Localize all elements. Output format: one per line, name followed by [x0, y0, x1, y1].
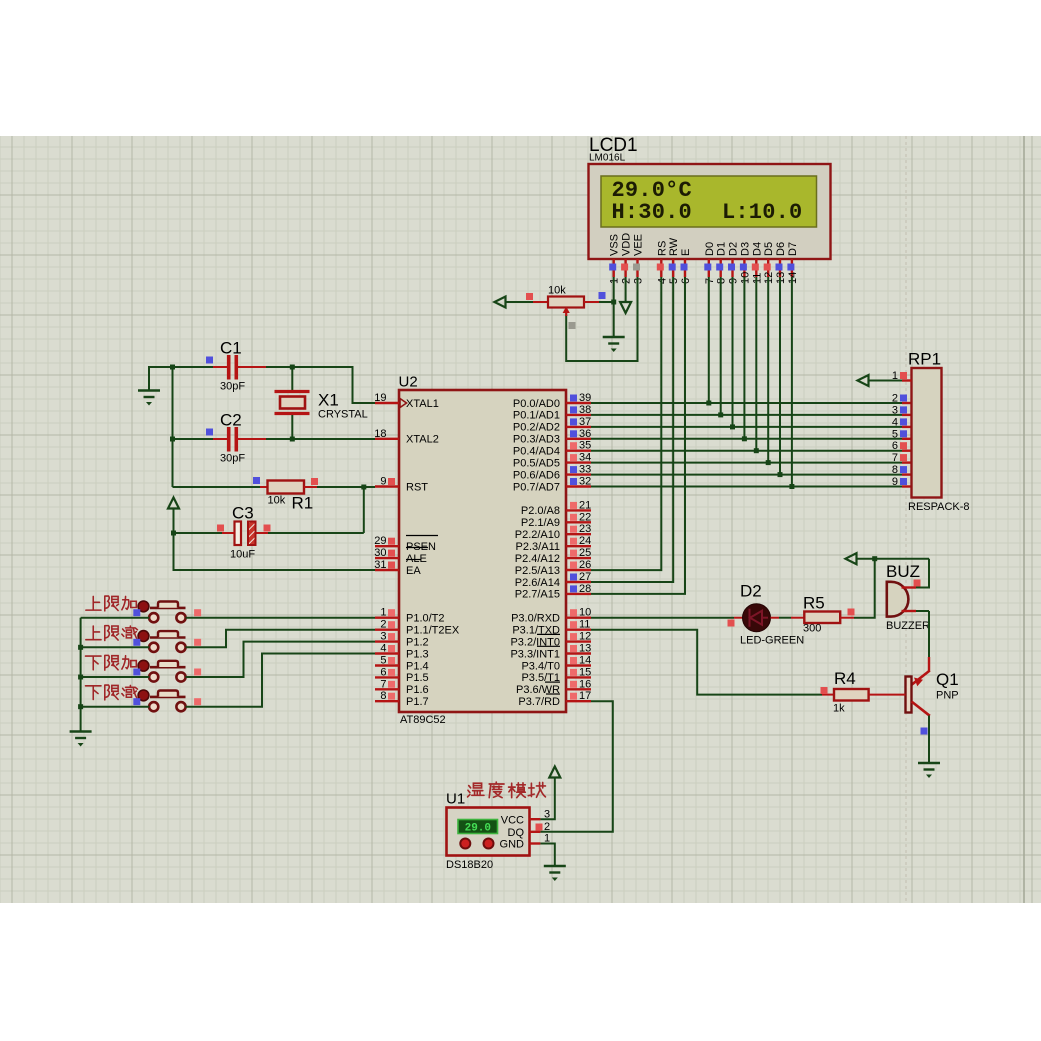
svg-text:P2.2/A10: P2.2/A10: [515, 529, 560, 541]
svg-text:5: 5: [892, 428, 898, 440]
svg-text:35: 35: [579, 440, 591, 452]
wire LCD D3 to P0.3 bus: [743, 277, 745, 439]
svg-text:4: 4: [380, 643, 386, 655]
svg-text:D0: D0: [704, 242, 716, 256]
svg-text:C1: C1: [220, 339, 242, 358]
ground (LCD VSS): [603, 337, 625, 344]
wire button column: [80, 618, 82, 732]
svg-text:30pF: 30pF: [220, 381, 245, 393]
svg-text:6: 6: [892, 440, 898, 452]
power terminal VDD (down arrow): [620, 302, 631, 313]
junction button column: [78, 645, 83, 650]
svg-text:D1: D1: [716, 242, 728, 256]
push button 2: [149, 643, 158, 652]
svg-text:38: 38: [579, 404, 591, 416]
button 2 state squares: [133, 639, 140, 646]
svg-text:VSS: VSS: [609, 234, 621, 256]
wire LCD D2 to P0.2 bus: [732, 277, 734, 427]
svg-text:P2.7/A15: P2.7/A15: [515, 589, 560, 601]
svg-text:P0.6/AD6: P0.6/AD6: [513, 469, 560, 481]
microcontroller U2 AT89C52 body: [399, 390, 566, 712]
button 1 state squares: [133, 609, 140, 616]
svg-text:VEE: VEE: [633, 234, 645, 256]
junction D1/P0.1: [718, 412, 723, 417]
svg-text:14: 14: [579, 655, 591, 667]
svg-text:7: 7: [380, 678, 386, 690]
svg-text:P0.1/AD1: P0.1/AD1: [513, 410, 560, 422]
transistor Q1 PNP: [928, 657, 930, 671]
junction C1/X1 top: [290, 365, 295, 370]
svg-text:P1.0/T2: P1.0/T2: [406, 613, 445, 625]
junction D5/P0.5: [766, 460, 771, 465]
button 4 state squares: [133, 698, 140, 705]
wire C3 left: [174, 532, 223, 534]
svg-text:E: E: [680, 249, 692, 256]
svg-text:GND: GND: [500, 839, 525, 851]
svg-text:P3.0/RXD: P3.0/RXD: [511, 613, 560, 625]
svg-text:300: 300: [803, 623, 821, 635]
svg-text:10k: 10k: [268, 495, 286, 507]
svg-text:2: 2: [380, 619, 386, 631]
power terminal (left arrow, rail): [846, 553, 857, 564]
svg-text:25: 25: [579, 547, 591, 559]
wire P3.1 to R4: [591, 630, 822, 695]
svg-text:EA: EA: [406, 565, 421, 577]
svg-text:PNP: PNP: [936, 690, 959, 702]
svg-text:6: 6: [380, 666, 386, 678]
svg-text:12: 12: [579, 631, 591, 643]
svg-text:P0.0/AD0: P0.0/AD0: [513, 398, 560, 410]
wire R1 left: [173, 486, 261, 488]
C1 state square: [206, 357, 213, 364]
RP1 pin 2 stub: [902, 402, 912, 404]
push button 1: [149, 613, 158, 622]
wire rail to buzzer top: [916, 559, 929, 588]
ground (Q1 collector): [918, 763, 940, 770]
svg-text:P3.4/T0: P3.4/T0: [521, 660, 560, 672]
ground (U1): [544, 866, 566, 873]
svg-text:29.0: 29.0: [465, 823, 491, 835]
svg-text:P0.4/AD4: P0.4/AD4: [513, 446, 560, 458]
svg-text:XTAL1: XTAL1: [406, 398, 439, 410]
wire VSS pin1 to ground: [613, 277, 615, 337]
svg-text:DQ: DQ: [508, 827, 525, 839]
LED D2 (LED-GREEN): [734, 617, 743, 619]
svg-text:P0.2/AD2: P0.2/AD2: [513, 422, 560, 434]
svg-text:10: 10: [579, 607, 591, 619]
RP1 pin1 stub: [902, 379, 912, 381]
svg-text:D6: D6: [775, 242, 787, 256]
wire LCD D5 to P0.5 bus: [767, 277, 769, 463]
wire P0.1 bus row: [591, 414, 902, 416]
wire P0.7 bus row: [591, 486, 902, 488]
ground (buttons): [70, 732, 92, 739]
svg-text:RP1: RP1: [908, 350, 941, 369]
label button 3 chinese: [85, 656, 101, 670]
buzzer BUZ: [887, 582, 909, 617]
svg-text:21: 21: [579, 499, 591, 511]
wire button3 row: [81, 676, 150, 678]
junction D4/P0.4: [754, 448, 759, 453]
junction RST/C3: [361, 485, 366, 490]
wire C2 row left: [173, 438, 214, 440]
svg-text:P1.2: P1.2: [406, 636, 429, 648]
power terminal (left arrow, pot): [495, 297, 506, 308]
wire button2 row: [81, 646, 150, 648]
svg-text:R1: R1: [292, 494, 314, 513]
wire pot left: [506, 301, 534, 303]
crystal X1: [291, 367, 293, 390]
D2 state square: [728, 620, 735, 627]
RP1 pin 6 stub: [902, 450, 912, 452]
svg-text:15: 15: [579, 666, 591, 678]
wire VEE pin3 to pot wiper: [566, 277, 637, 361]
label button 1 chinese: [86, 596, 101, 610]
svg-text:P2.1/A9: P2.1/A9: [521, 517, 560, 529]
R5 state square: [848, 609, 855, 616]
svg-text:R5: R5: [803, 594, 825, 613]
svg-text:VDD: VDD: [621, 233, 633, 256]
svg-text:C3: C3: [232, 504, 254, 523]
RP1 pin 5 stub: [902, 438, 912, 440]
svg-text:C2: C2: [220, 411, 242, 430]
svg-text:D3: D3: [739, 242, 751, 256]
R1 state squares: [253, 477, 260, 484]
svg-text:P2.3/A11: P2.3/A11: [516, 541, 560, 553]
svg-text:31: 31: [374, 559, 386, 571]
svg-text:19: 19: [374, 392, 386, 404]
svg-text:8: 8: [380, 690, 386, 702]
power terminal VCC (up arrow, U1): [549, 767, 560, 778]
svg-text:RST: RST: [406, 481, 428, 493]
wire P3.0 to LED: [591, 617, 734, 619]
wire ground to C1: [149, 367, 213, 391]
LCD pin state squares: [609, 264, 616, 271]
wire buzzer bottom to Q1 emitter: [916, 610, 929, 612]
capacitor C3 (polar): [256, 532, 269, 534]
svg-text:P0.5/AD5: P0.5/AD5: [513, 457, 560, 469]
pot wiper arrow: [565, 310, 567, 317]
U2 left pin stubs: [375, 402, 399, 404]
wire LCD D6 to P0.6 bus: [779, 277, 781, 475]
svg-text:7: 7: [892, 452, 898, 464]
svg-text:VCC: VCC: [501, 814, 524, 826]
junction button column: [78, 704, 83, 709]
svg-text:Q1: Q1: [936, 670, 959, 689]
wire VCC arrow to C3 node: [173, 509, 175, 534]
wire P0.3 bus row: [591, 438, 902, 440]
RP1 pin 4 stub: [902, 426, 912, 428]
U2 left pin state squares: [388, 478, 395, 485]
svg-text:34: 34: [579, 452, 591, 464]
svg-text:P2.4/A12: P2.4/A12: [515, 553, 560, 565]
svg-text:X1: X1: [318, 391, 339, 410]
svg-text:26: 26: [579, 559, 591, 571]
junction button column: [78, 675, 83, 680]
wire LCD D7 to P0.7 bus: [791, 277, 793, 487]
svg-text:LED-GREEN: LED-GREEN: [740, 635, 804, 647]
wire RST down to C3: [363, 487, 365, 533]
U2 right pin stubs: [566, 402, 591, 404]
wire LCD D0 to P0.0 bus: [708, 277, 710, 403]
svg-text:D2: D2: [740, 582, 762, 601]
wire VDD pin2: [625, 277, 627, 302]
push button 3: [149, 672, 158, 681]
wire VCC to power: [540, 778, 554, 820]
svg-text:R4: R4: [834, 669, 856, 688]
svg-text:2: 2: [544, 821, 550, 833]
R4 state square: [821, 687, 828, 694]
svg-text:BUZZER: BUZZER: [886, 620, 930, 632]
svg-text:P0.7/AD7: P0.7/AD7: [513, 481, 560, 493]
C2 state square: [206, 429, 213, 436]
svg-text:13: 13: [579, 643, 591, 655]
svg-text:11: 11: [579, 619, 590, 631]
wire pot right to VSS net: [599, 301, 614, 303]
pot left pin stub: [533, 301, 548, 303]
svg-text:P3.7/RD: P3.7/RD: [518, 696, 560, 708]
wire button1 row: [81, 617, 150, 619]
pot state squares: [526, 293, 533, 300]
svg-text:5: 5: [380, 655, 386, 667]
svg-text:33: 33: [579, 464, 591, 476]
button 3 state squares: [133, 669, 140, 676]
junction D6/P0.6: [778, 472, 783, 477]
junction D2/P0.2: [730, 424, 735, 429]
resistor R4: [822, 694, 834, 696]
svg-text:D2: D2: [728, 242, 740, 256]
svg-text:P1.6: P1.6: [406, 684, 429, 696]
junction D3/P0.3: [742, 436, 747, 441]
svg-text:1k: 1k: [833, 703, 845, 715]
junction C2 row: [170, 437, 175, 442]
pot right pin stub: [584, 301, 599, 303]
junction D0/P0.0: [706, 401, 711, 406]
svg-text:P1.3: P1.3: [406, 648, 429, 660]
LCD display LCD1 (LM016L) body: [589, 164, 831, 259]
svg-text:P1.4: P1.4: [406, 660, 429, 672]
svg-text:RS: RS: [656, 241, 668, 256]
svg-text:10uF: 10uF: [230, 549, 255, 561]
svg-text:4: 4: [892, 416, 898, 428]
RP1 pin state squares: [900, 372, 907, 379]
svg-text:L:10.0: L:10.0: [722, 200, 802, 225]
U2 right pin state squares: [570, 395, 577, 402]
svg-text:28: 28: [579, 583, 591, 595]
wire LED to R5: [779, 617, 791, 619]
wire RP1 pin1: [869, 380, 903, 382]
svg-text:P0.3/AD3: P0.3/AD3: [513, 434, 560, 446]
push button 4: [149, 702, 158, 711]
svg-text:23: 23: [579, 523, 591, 535]
svg-text:17: 17: [579, 690, 591, 702]
wire E to P2.7: [591, 277, 685, 594]
resistor R1: [260, 486, 268, 488]
svg-text:29: 29: [374, 535, 386, 547]
wire P0.0 bus row: [591, 402, 902, 404]
svg-text:P3.3/INT1: P3.3/INT1: [510, 648, 560, 660]
wire C1-C2 vertical: [172, 367, 174, 487]
wire RS to P2.5: [591, 277, 661, 570]
resistor R5: [791, 617, 804, 619]
node VSS-pot junction: [611, 300, 616, 305]
svg-text:10k: 10k: [548, 285, 566, 297]
svg-text:9: 9: [892, 476, 898, 488]
wire GND to ground: [540, 844, 554, 867]
power terminal (left arrow, RP1 pin1): [858, 375, 869, 386]
svg-text:9: 9: [380, 476, 386, 488]
svg-text:30: 30: [374, 547, 386, 559]
junction C1/C2 branch: [170, 365, 175, 370]
RP1 pin 8 stub: [902, 473, 912, 475]
wire P3.7 to DQ: [540, 701, 612, 832]
svg-text:27: 27: [579, 571, 591, 583]
svg-text:P1.1/T2EX: P1.1/T2EX: [406, 625, 460, 637]
wire LCD D4 to P0.4 bus: [755, 277, 757, 451]
svg-text:U1: U1: [446, 791, 465, 808]
wire R1 to RST: [317, 486, 375, 488]
U1 DQ state square: [536, 824, 543, 831]
svg-text:36: 36: [579, 428, 591, 440]
svg-text:30pF: 30pF: [220, 453, 245, 465]
svg-text:32: 32: [579, 476, 591, 488]
svg-text:P2.5/A13: P2.5/A13: [515, 565, 560, 577]
svg-text:U2: U2: [399, 374, 418, 391]
svg-text:1: 1: [892, 370, 898, 382]
svg-text:RESPACK-8: RESPACK-8: [908, 501, 970, 513]
svg-text:RW: RW: [668, 237, 680, 256]
C3 state squares: [217, 525, 224, 532]
power terminal VCC (up arrow, C3): [168, 498, 179, 509]
wire P0.6 bus row: [591, 474, 902, 476]
svg-text:BUZ: BUZ: [886, 562, 920, 581]
capacitor C1: [213, 366, 227, 368]
wire power rail: [857, 558, 930, 560]
RP1 pin 7 stub: [902, 461, 912, 463]
svg-text:8: 8: [892, 464, 898, 476]
wire P0.2 bus row: [591, 426, 902, 428]
wire RW to P2.6: [591, 277, 673, 582]
wire P0.5 bus row: [591, 462, 902, 464]
XTAL1 clock arrow: [400, 399, 407, 408]
svg-text:P2.0/A8: P2.0/A8: [521, 505, 560, 517]
svg-text:37: 37: [579, 416, 591, 428]
junction C3/VCC: [171, 531, 176, 536]
label button 4 chinese: [85, 686, 101, 700]
RP1 pin 3 stub: [902, 414, 912, 416]
svg-text:24: 24: [579, 535, 591, 547]
svg-text:LM016L: LM016L: [589, 153, 626, 164]
wire R5 to power rail: [854, 559, 875, 618]
svg-text:16: 16: [579, 678, 591, 690]
svg-text:H:30.0: H:30.0: [612, 200, 692, 225]
potentiometer 10k body: [548, 297, 584, 308]
capacitor C2: [213, 438, 227, 440]
svg-text:2: 2: [892, 393, 898, 405]
svg-text:P2.6/A14: P2.6/A14: [515, 577, 560, 589]
wire LCD D1 to P0.1 bus: [720, 277, 722, 415]
svg-text:22: 22: [579, 511, 591, 523]
junction D7/P0.7: [789, 484, 794, 489]
junction power rail: [872, 556, 877, 561]
svg-text:DS18B20: DS18B20: [446, 859, 493, 871]
label button 2 chinese: [86, 626, 101, 640]
svg-text:D5: D5: [763, 242, 775, 256]
wire C1 to XTAL1 corner: [266, 367, 375, 403]
svg-text:XTAL2: XTAL2: [406, 434, 439, 446]
BUZ state square: [914, 580, 921, 587]
wire C3 right: [268, 532, 364, 534]
temperature module U1 DS18B20 body: [447, 808, 530, 856]
resistor pack RP1 RESPACK-8 body: [912, 368, 942, 498]
svg-text:39: 39: [579, 392, 591, 404]
ground (left, C1): [138, 391, 160, 398]
wire P0.4 bus row: [591, 450, 902, 452]
svg-text:3: 3: [380, 631, 386, 643]
U1 pin stubs: [530, 818, 541, 820]
wire C2 to XTAL2: [266, 438, 375, 440]
svg-text:3: 3: [892, 404, 898, 416]
svg-text:D4: D4: [751, 242, 763, 256]
svg-text:D7: D7: [787, 242, 799, 256]
junction C2/X1 bottom: [290, 437, 295, 442]
label wenduomokuai (温度模块): [468, 783, 484, 797]
svg-text:1: 1: [380, 607, 386, 619]
RP1 pin 9 stub: [902, 485, 912, 487]
wire C3 node to EA: [174, 533, 376, 570]
svg-text:CRYSTAL: CRYSTAL: [318, 409, 368, 421]
svg-text:P1.5: P1.5: [406, 672, 429, 684]
svg-text:18: 18: [374, 428, 386, 440]
Q1 state square: [921, 728, 928, 735]
LCD pin stubs 1-14: [613, 259, 615, 277]
svg-text:P1.7: P1.7: [406, 696, 429, 708]
wire button4 row: [81, 706, 150, 708]
svg-text:AT89C52: AT89C52: [400, 714, 446, 726]
